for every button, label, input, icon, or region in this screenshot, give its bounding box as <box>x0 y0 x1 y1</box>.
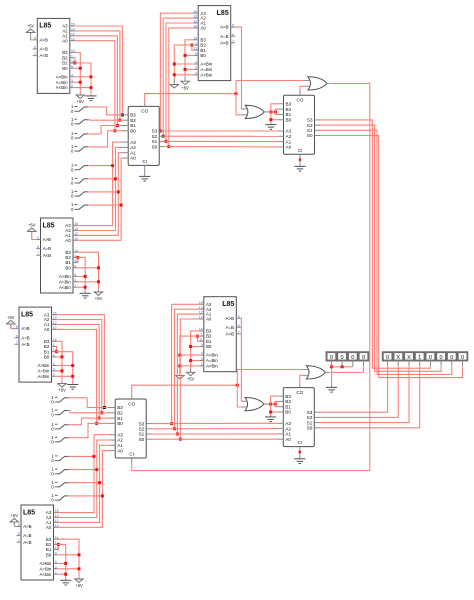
svg-text:1: 1 <box>71 54 73 58</box>
svg-text:5: 5 <box>18 523 20 527</box>
svg-text:+5V: +5V <box>187 376 195 381</box>
svg-text:10: 10 <box>199 316 203 320</box>
svg-text:CO: CO <box>128 401 135 406</box>
svg-text:B1: B1 <box>117 416 123 421</box>
svg-text:5: 5 <box>16 325 18 329</box>
svg-text:A<B: A<B <box>226 332 234 337</box>
svg-text:1: 1 <box>55 541 57 545</box>
svg-text:A>Bin: A>Bin <box>56 74 68 79</box>
svg-text:B3: B3 <box>130 113 136 118</box>
svg-text:+5V: +5V <box>7 315 15 320</box>
svg-text:0: 0 <box>71 109 74 114</box>
svg-text:A=B: A=B <box>43 246 51 251</box>
svg-text:X: X <box>407 355 411 361</box>
svg-text:6: 6 <box>18 532 20 536</box>
svg-text:L85: L85 <box>39 23 51 30</box>
svg-text:B0: B0 <box>130 129 136 134</box>
svg-text:5: 5 <box>37 236 39 240</box>
svg-text:15: 15 <box>71 23 75 27</box>
svg-text:10: 10 <box>53 326 57 330</box>
svg-text:CO: CO <box>297 98 304 103</box>
svg-text:A0: A0 <box>130 156 136 161</box>
svg-text:B3: B3 <box>117 405 123 410</box>
svg-text:0: 0 <box>386 355 389 361</box>
svg-text:9: 9 <box>53 354 55 358</box>
svg-text:A<Bin: A<Bin <box>206 364 218 369</box>
svg-text:A=B: A=B <box>226 325 234 330</box>
svg-text:+5V: +5V <box>27 23 35 28</box>
svg-text:B2: B2 <box>117 411 123 416</box>
svg-text:B0: B0 <box>206 344 212 349</box>
svg-text:A<B: A<B <box>23 540 31 545</box>
svg-text:A=Bin: A=Bin <box>59 279 71 284</box>
svg-text:0: 0 <box>71 122 74 127</box>
svg-text:2: 2 <box>201 363 203 367</box>
svg-text:0: 0 <box>341 355 344 361</box>
svg-text:CI: CI <box>129 452 134 457</box>
svg-text:X: X <box>396 355 400 361</box>
svg-text:A>B: A>B <box>220 25 228 30</box>
svg-text:B2: B2 <box>130 118 136 123</box>
svg-text:7: 7 <box>18 539 20 543</box>
svg-text:10: 10 <box>71 37 75 41</box>
svg-text:A>B: A>B <box>226 316 234 321</box>
svg-text:B0: B0 <box>65 265 71 270</box>
svg-text:9: 9 <box>201 343 203 347</box>
svg-text:0: 0 <box>71 181 74 186</box>
svg-text:+5V: +5V <box>58 388 66 393</box>
svg-text:A3: A3 <box>117 432 123 437</box>
svg-text:7: 7 <box>238 331 240 335</box>
svg-text:6: 6 <box>37 245 39 249</box>
svg-text:15: 15 <box>199 301 203 305</box>
svg-text:CO: CO <box>296 390 303 395</box>
svg-text:A>Bin: A>Bin <box>206 353 218 358</box>
svg-text:A2: A2 <box>286 134 292 139</box>
svg-text:A=B: A=B <box>21 335 29 340</box>
svg-text:13: 13 <box>199 306 203 310</box>
svg-text:4: 4 <box>55 560 57 564</box>
svg-text:11: 11 <box>53 348 57 352</box>
svg-text:B0: B0 <box>46 552 52 557</box>
svg-text:A0: A0 <box>206 317 212 322</box>
svg-text:1: 1 <box>195 42 197 46</box>
svg-text:+5V: +5V <box>77 99 85 104</box>
svg-text:2: 2 <box>55 571 57 575</box>
svg-text:7: 7 <box>16 341 18 345</box>
svg-text:A<B: A<B <box>43 253 51 258</box>
svg-text:L85: L85 <box>42 222 54 229</box>
svg-text:4: 4 <box>74 273 76 277</box>
svg-text:0: 0 <box>362 355 365 361</box>
svg-text:A0: A0 <box>200 26 206 31</box>
svg-text:A2: A2 <box>117 438 123 443</box>
svg-text:A>Bin: A>Bin <box>200 62 212 67</box>
svg-text:7: 7 <box>37 252 39 256</box>
svg-text:S0: S0 <box>307 426 313 431</box>
svg-text:S0: S0 <box>152 144 158 149</box>
svg-text:+5V: +5V <box>11 513 19 518</box>
svg-text:A<Bin: A<Bin <box>56 85 68 90</box>
svg-text:A<Bin: A<Bin <box>37 374 49 379</box>
svg-text:A3: A3 <box>286 129 292 134</box>
svg-text:13: 13 <box>193 15 197 19</box>
svg-text:CI: CI <box>298 148 303 153</box>
svg-text:0: 0 <box>51 412 54 417</box>
svg-text:0: 0 <box>71 167 74 172</box>
svg-text:9: 9 <box>74 264 76 268</box>
svg-text:B0: B0 <box>44 355 50 360</box>
svg-text:B0: B0 <box>285 410 291 415</box>
svg-text:14: 14 <box>55 536 59 540</box>
svg-text:B2: B2 <box>285 399 291 404</box>
svg-text:10: 10 <box>55 524 59 528</box>
svg-text:11: 11 <box>55 546 59 550</box>
svg-text:A>B: A>B <box>23 524 31 529</box>
svg-text:10: 10 <box>193 25 197 29</box>
svg-text:A3: A3 <box>285 421 291 426</box>
svg-text:L85: L85 <box>217 10 229 17</box>
svg-text:0: 0 <box>330 355 333 361</box>
svg-text:+5V: +5V <box>95 296 103 301</box>
svg-text:11: 11 <box>193 47 197 51</box>
svg-text:4: 4 <box>71 73 73 77</box>
svg-text:2: 2 <box>71 84 73 88</box>
svg-text:B0: B0 <box>62 66 68 71</box>
svg-text:9: 9 <box>71 65 73 69</box>
svg-text:12: 12 <box>55 519 59 523</box>
svg-text:CO: CO <box>141 109 148 114</box>
svg-text:B0: B0 <box>200 53 206 58</box>
svg-text:0: 0 <box>51 458 54 463</box>
svg-text:A=Bin: A=Bin <box>39 566 51 571</box>
svg-text:11: 11 <box>74 259 78 263</box>
svg-text:13: 13 <box>53 316 57 320</box>
svg-text:13: 13 <box>74 227 78 231</box>
svg-text:3: 3 <box>74 278 76 282</box>
svg-text:4: 4 <box>201 352 203 356</box>
svg-text:9: 9 <box>55 551 57 555</box>
svg-text:5: 5 <box>232 24 234 28</box>
svg-text:B1: B1 <box>285 404 291 409</box>
svg-text:A1: A1 <box>117 443 123 448</box>
svg-text:0: 0 <box>51 498 54 503</box>
svg-text:0: 0 <box>71 194 74 199</box>
svg-text:0: 0 <box>71 136 74 141</box>
svg-text:15: 15 <box>74 222 78 226</box>
svg-text:+5V: +5V <box>181 85 189 90</box>
svg-text:11: 11 <box>199 338 203 342</box>
svg-text:7: 7 <box>232 39 234 43</box>
svg-text:0: 0 <box>51 427 54 432</box>
svg-text:L85: L85 <box>222 301 234 308</box>
svg-text:3: 3 <box>53 368 55 372</box>
svg-text:14: 14 <box>193 36 197 40</box>
svg-text:B0: B0 <box>286 117 292 122</box>
svg-text:A=Bin: A=Bin <box>200 67 212 72</box>
svg-text:0: 0 <box>51 440 54 445</box>
svg-text:15: 15 <box>193 10 197 14</box>
svg-text:S0: S0 <box>139 437 145 442</box>
svg-text:12: 12 <box>193 20 197 24</box>
svg-text:A=B: A=B <box>40 47 48 52</box>
svg-text:0: 0 <box>51 471 54 476</box>
svg-text:A<B: A<B <box>220 40 228 45</box>
svg-text:L85: L85 <box>23 509 35 516</box>
svg-text:A1: A1 <box>286 139 292 144</box>
svg-text:12: 12 <box>199 311 203 315</box>
svg-text:A0: A0 <box>44 327 50 332</box>
svg-text:13: 13 <box>55 514 59 518</box>
svg-text:1: 1 <box>201 333 203 337</box>
svg-text:A2: A2 <box>285 426 291 431</box>
svg-text:A>B: A>B <box>21 326 29 331</box>
svg-text:15: 15 <box>55 509 59 513</box>
svg-text:3: 3 <box>201 357 203 361</box>
svg-text:A>B: A>B <box>40 38 48 43</box>
svg-text:B2: B2 <box>286 107 292 112</box>
svg-text:11: 11 <box>71 60 75 64</box>
svg-text:14: 14 <box>199 328 203 332</box>
svg-text:3: 3 <box>195 66 197 70</box>
svg-text:A<Bin: A<Bin <box>39 572 51 577</box>
svg-text:A<Bin: A<Bin <box>59 285 71 290</box>
svg-text:10: 10 <box>74 237 78 241</box>
svg-text:15: 15 <box>53 311 57 315</box>
svg-text:0: 0 <box>450 355 453 361</box>
svg-text:A1: A1 <box>285 432 291 437</box>
svg-text:A0: A0 <box>65 238 71 243</box>
svg-text:0: 0 <box>461 355 464 361</box>
svg-text:CI: CI <box>298 440 303 445</box>
svg-text:12: 12 <box>71 32 75 36</box>
svg-text:A0: A0 <box>46 525 52 530</box>
svg-text:1: 1 <box>53 343 55 347</box>
svg-text:A<Bin: A<Bin <box>200 72 212 77</box>
svg-text:5: 5 <box>238 315 240 319</box>
svg-text:A1: A1 <box>130 150 136 155</box>
svg-text:7: 7 <box>34 52 36 56</box>
svg-text:12: 12 <box>53 321 57 325</box>
svg-text:0: 0 <box>51 400 54 405</box>
svg-text:A<B: A<B <box>21 342 29 347</box>
svg-text:1: 1 <box>74 254 76 258</box>
svg-text:S0: S0 <box>307 133 313 138</box>
svg-text:14: 14 <box>74 249 78 253</box>
svg-text:9: 9 <box>195 52 197 56</box>
svg-text:4: 4 <box>53 362 55 366</box>
svg-text:B0: B0 <box>117 421 123 426</box>
svg-text:B3: B3 <box>286 102 292 107</box>
svg-text:14: 14 <box>53 338 57 342</box>
svg-text:B1: B1 <box>130 123 136 128</box>
svg-text:0: 0 <box>71 149 74 154</box>
svg-text:B1: B1 <box>286 112 292 117</box>
svg-text:B3: B3 <box>285 394 291 399</box>
svg-text:L85: L85 <box>21 311 33 318</box>
svg-text:14: 14 <box>71 49 75 53</box>
svg-text:0: 0 <box>351 355 354 361</box>
svg-text:A0: A0 <box>285 437 291 442</box>
svg-text:A>Bin: A>Bin <box>37 363 49 368</box>
svg-text:A=Bin: A=Bin <box>206 358 218 363</box>
svg-text:A>Bin: A>Bin <box>59 274 71 279</box>
svg-text:A0: A0 <box>286 145 292 150</box>
svg-text:A=B: A=B <box>23 533 31 538</box>
svg-text:A>B: A>B <box>43 237 51 242</box>
svg-text:2: 2 <box>195 71 197 75</box>
svg-text:A=Bin: A=Bin <box>56 80 68 85</box>
svg-text:6: 6 <box>238 324 240 328</box>
svg-text:A=B: A=B <box>220 34 228 39</box>
svg-text:+5V: +5V <box>75 583 83 588</box>
svg-text:A<B: A<B <box>40 53 48 58</box>
svg-text:12: 12 <box>74 232 78 236</box>
svg-text:A2: A2 <box>130 145 136 150</box>
svg-text:6: 6 <box>232 33 234 37</box>
svg-text:5: 5 <box>34 37 36 41</box>
svg-text:3: 3 <box>55 565 57 569</box>
svg-text:0: 0 <box>440 355 443 361</box>
svg-text:6: 6 <box>16 334 18 338</box>
svg-text:13: 13 <box>71 28 75 32</box>
svg-text:A=Bin: A=Bin <box>37 369 49 374</box>
svg-text:0: 0 <box>71 207 74 212</box>
svg-text:4: 4 <box>195 61 197 65</box>
svg-text:0: 0 <box>429 355 432 361</box>
svg-text:6: 6 <box>34 46 36 50</box>
svg-text:2: 2 <box>74 284 76 288</box>
svg-text:1: 1 <box>418 355 421 361</box>
svg-text:A3: A3 <box>130 140 136 145</box>
svg-text:A>Bin: A>Bin <box>39 561 51 566</box>
svg-text:3: 3 <box>71 79 73 83</box>
svg-text:A0: A0 <box>62 38 68 43</box>
svg-text:+5V: +5V <box>28 222 36 227</box>
svg-text:2: 2 <box>53 373 55 377</box>
svg-text:CI: CI <box>142 159 147 164</box>
svg-text:A0: A0 <box>117 448 123 453</box>
svg-text:0: 0 <box>51 485 54 490</box>
